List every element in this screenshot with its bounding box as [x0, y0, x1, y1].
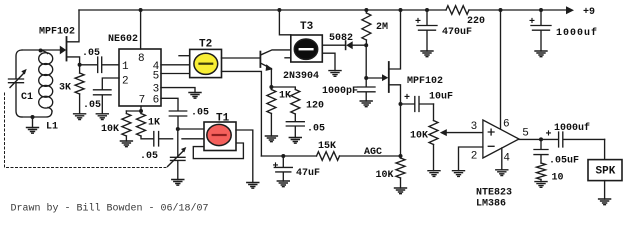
svg-text:+: +	[415, 17, 421, 28]
ground 1K emitter	[265, 136, 277, 142]
wire pin5 output	[519, 138, 541, 140]
ground 10K pin7	[120, 141, 132, 147]
transformer T3	[279, 10, 322, 62]
ground 120 cap	[289, 138, 301, 144]
capacitor C 1000uf output	[541, 122, 605, 147]
svg-text:2: 2	[122, 76, 129, 88]
svg-text:10K: 10K	[410, 130, 428, 141]
ground T3 tap	[329, 71, 341, 77]
junction 2M rail	[364, 8, 368, 12]
junction Q3 drain rail	[399, 8, 403, 12]
svg-text:120: 120	[306, 100, 324, 111]
transformer T1	[193, 112, 243, 158]
ground 10 zobel	[535, 182, 547, 188]
wire T1 secondary to ground	[236, 130, 253, 183]
wire tank bottom	[22, 111, 52, 117]
diode D1 5082	[322, 33, 366, 50]
svg-text:7: 7	[139, 95, 146, 107]
svg-text:15K: 15K	[318, 141, 336, 152]
junction 47uF node	[281, 154, 285, 158]
svg-text:5: 5	[153, 71, 160, 83]
capacitor C .05uF zobel	[534, 139, 579, 166]
svg-text:1K: 1K	[148, 118, 160, 129]
ground tank	[27, 117, 39, 133]
junction 1000uf rail	[539, 8, 543, 12]
wire pin2 to ground	[459, 147, 483, 171]
svg-text:.05: .05	[191, 108, 209, 119]
junction pin8 rail	[139, 8, 143, 12]
ground 1000pF	[360, 101, 372, 107]
wire ganged tuning dashed link	[5, 93, 167, 168]
potentiometer R 10K volume	[410, 104, 483, 171]
svg-text:.05: .05	[83, 100, 101, 111]
ground 470uF	[421, 51, 433, 57]
transformer T2	[179, 39, 222, 78]
ground 47uF	[277, 181, 289, 187]
junction T3 rail	[277, 8, 281, 12]
ground 10K AGC	[395, 188, 407, 194]
capacitor C .05 pin6	[161, 98, 209, 129]
svg-text:SPK: SPK	[596, 166, 616, 178]
junction 470uF rail	[425, 8, 429, 12]
wire T1 primary bottom	[182, 138, 204, 140]
svg-text:NE602: NE602	[108, 34, 138, 45]
resistor R 3K	[59, 65, 84, 114]
svg-text:1000pF: 1000pF	[322, 86, 358, 97]
junction Q3 source	[399, 102, 403, 106]
ground T1 secondary	[247, 183, 259, 189]
svg-text:10K: 10K	[376, 170, 394, 181]
supply arrow +9	[566, 6, 595, 18]
junction tank ground	[31, 115, 35, 119]
svg-text:4: 4	[503, 153, 510, 165]
svg-text:+: +	[404, 93, 410, 104]
svg-text:470uF: 470uF	[442, 27, 472, 38]
svg-text:47uF: 47uF	[296, 168, 320, 179]
resistor R 15K AGC	[317, 141, 340, 160]
resistor R 10 zobel	[537, 155, 564, 183]
svg-text:+: +	[529, 17, 535, 28]
capacitor C .05 pin2 bypass	[83, 78, 119, 114]
svg-text:1000uf: 1000uf	[556, 27, 598, 39]
junction T1 top	[176, 127, 180, 131]
capacitor C1 variable	[9, 50, 34, 117]
capacitor C .05 coupling pin1	[80, 48, 119, 73]
wire pin8 to rail	[140, 10, 142, 49]
ground 3K	[74, 114, 86, 120]
wire AGC line	[261, 147, 400, 158]
wire emitter to 120	[271, 87, 295, 90]
capacitor C 1000uf rail	[529, 10, 598, 51]
ground pin3	[189, 93, 201, 99]
svg-text:MPF102: MPF102	[407, 76, 443, 87]
svg-text:MPF102: MPF102	[39, 27, 75, 38]
junction pin6 rail	[499, 8, 503, 12]
capacitor C 1000pF	[322, 78, 375, 101]
transistor Q3 MPF102	[366, 10, 443, 104]
svg-text:2N3904: 2N3904	[283, 71, 319, 82]
svg-text:L1: L1	[46, 121, 58, 132]
svg-text:.05: .05	[140, 151, 158, 162]
svg-text:6: 6	[153, 95, 160, 107]
capacitor C .05 to T1	[140, 132, 173, 162]
junction AGC node	[399, 154, 403, 158]
junction pin7	[139, 109, 143, 113]
capacitor C 10uF coupling	[401, 92, 454, 112]
svg-text:1K: 1K	[279, 91, 291, 102]
svg-text:+9: +9	[583, 7, 595, 18]
ground pin4	[496, 170, 508, 176]
wire T2 to Q2 base	[222, 57, 260, 59]
svg-text:5082: 5082	[329, 33, 353, 44]
resistor R 10K pin7	[101, 111, 131, 141]
speaker SPK	[588, 139, 622, 199]
svg-text:5: 5	[522, 127, 529, 139]
resistor R 120	[291, 90, 324, 122]
capacitor C 470uF	[415, 10, 472, 51]
junction Q1 source	[78, 63, 82, 67]
svg-text:3: 3	[471, 121, 478, 133]
svg-text:10uF: 10uF	[429, 92, 453, 103]
capacitor trimmer T1 tuning	[168, 129, 187, 180]
resistor R 1K emitter	[267, 87, 291, 136]
node coil top	[39, 49, 43, 53]
svg-text:C1: C1	[21, 92, 33, 103]
junction detector node	[364, 43, 368, 47]
svg-text:2M: 2M	[376, 22, 388, 33]
svg-text:2: 2	[471, 150, 478, 162]
svg-text:6: 6	[503, 119, 510, 131]
svg-text:1: 1	[122, 61, 129, 73]
ground pot	[428, 171, 440, 177]
svg-text:T3: T3	[300, 21, 314, 33]
wire T2 bottom to AGC	[222, 71, 262, 156]
resistor R 2M	[362, 10, 388, 45]
svg-text:220: 220	[467, 16, 485, 27]
svg-text:8: 8	[138, 53, 145, 65]
junction Q2 emitter	[269, 85, 273, 89]
ground pin2	[453, 171, 465, 177]
svg-text:1000uf: 1000uf	[554, 122, 590, 134]
svg-text:NTE823: NTE823	[476, 187, 512, 198]
wire pin3 to ground	[161, 88, 195, 93]
svg-text:.05: .05	[307, 124, 325, 135]
wire pin5 to T2	[161, 73, 190, 75]
text credit	[11, 203, 209, 215]
transistor Q1 MPF102	[22, 10, 80, 65]
capacitor C 47uF	[273, 156, 321, 181]
ground trimmer	[172, 180, 184, 186]
svg-text:.05uF: .05uF	[549, 156, 579, 167]
ground 1000uf rail	[535, 51, 547, 57]
inductor L1	[39, 51, 58, 133]
op-amp U1 NE602 mixer IC	[108, 34, 161, 106]
svg-text:Drawn by - Bill Bowden - 06/18: Drawn by - Bill Bowden - 06/18/07	[11, 203, 209, 215]
svg-text:10K: 10K	[101, 124, 119, 135]
ground pin2 cap	[96, 114, 108, 120]
svg-text:3K: 3K	[59, 83, 71, 94]
capacitor C .05 bypass 120	[286, 122, 325, 138]
wire source to AGC node	[400, 104, 402, 156]
wire pin7	[126, 106, 141, 111]
wire T1 primary top	[178, 128, 204, 130]
op-amp U2 LM386	[471, 119, 529, 210]
resistor R 10K AGC	[376, 156, 406, 188]
wire T3 tap to ground	[322, 53, 335, 70]
svg-text:10: 10	[552, 172, 564, 183]
transistor Q2 2N3904	[260, 50, 319, 87]
junction Q3 gate node	[364, 76, 368, 80]
resistor R 1K pin7	[137, 111, 161, 139]
wire +9V supply rail	[79, 9, 566, 11]
wire detector to gate	[365, 45, 367, 78]
wire pin4 to ground	[501, 148, 503, 170]
ground speaker	[599, 199, 611, 205]
wire pin4 to T2	[161, 64, 190, 66]
junction output node	[539, 137, 543, 141]
wire pin6 supply	[500, 10, 502, 130]
svg-text:LM386: LM386	[476, 198, 506, 209]
resistor R 220	[446, 6, 485, 27]
